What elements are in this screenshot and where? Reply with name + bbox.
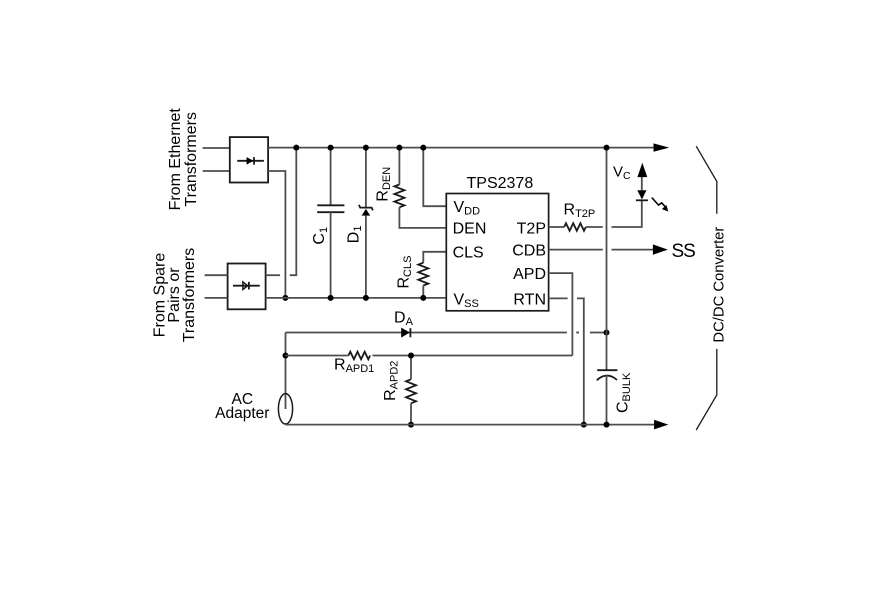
DC/DC converter bracket top — [696, 146, 717, 214]
svg-text:Transformers: Transformers — [181, 248, 198, 343]
wire bridge2 top output cont — [290, 148, 297, 276]
label From Spare Pairs or Transformers — [151, 248, 198, 343]
wire bulk rail top — [606, 148, 608, 371]
svg-text:RTN: RTN — [513, 291, 546, 308]
capacitor C1 — [317, 148, 344, 298]
wire bridge1 input bottom — [203, 170, 230, 172]
label AC Adapter — [215, 391, 269, 422]
resistor RCLS — [418, 252, 446, 298]
arrow top rail output — [654, 143, 670, 151]
junction DA to bulk rail — [604, 330, 610, 336]
svg-text:CLS: CLS — [453, 245, 484, 262]
svg-text:TPS2378: TPS2378 — [467, 175, 534, 192]
wire CDB to SS (right of rail) — [612, 249, 655, 251]
wire VDD from rail — [423, 148, 446, 207]
resistor RAPD2 — [406, 356, 416, 425]
LED light arrow — [652, 198, 669, 212]
wire bridge2 input bottom — [205, 297, 228, 299]
wire DA line left — [286, 332, 567, 334]
junction VDD rail — [420, 145, 426, 151]
DC/DC converter bracket bottom — [696, 349, 717, 430]
wire APD down-left — [549, 273, 573, 355]
label From Ethernet Transformers — [167, 108, 200, 211]
wire bridge2 top output (hops over vertical) — [266, 274, 281, 276]
bridge rectifier B1 — [230, 137, 268, 182]
wire top rail — [268, 147, 654, 149]
junction CBULK bottom — [604, 422, 610, 428]
wire adapter vertical — [285, 333, 287, 410]
junction D1 top — [363, 145, 369, 151]
svg-text:T2P: T2P — [517, 221, 546, 238]
wire RTN cont down — [577, 298, 584, 424]
diode DA — [401, 328, 410, 338]
bridge rectifier B2 — [228, 264, 266, 310]
svg-text:Transformers: Transformers — [183, 112, 200, 207]
wire bottom rail — [286, 424, 656, 426]
svg-text:DC/DC Converter: DC/DC Converter — [712, 227, 728, 343]
svg-text:Adapter: Adapter — [215, 405, 269, 422]
junction bridge1-b to VSS rail — [282, 295, 288, 301]
svg-text:DEN: DEN — [453, 221, 487, 238]
junction RTN bottom — [581, 422, 587, 428]
svg-text:SS: SS — [672, 241, 696, 262]
zener diode D1 — [359, 148, 373, 298]
svg-text:APD: APD — [513, 266, 546, 283]
wire bridge2 input top — [205, 274, 228, 276]
wire bridge1 input top — [203, 147, 230, 149]
op-amp U1 TPS2378 box — [446, 194, 548, 311]
svg-text:From Ethernet: From Ethernet — [167, 108, 184, 211]
arrow bottom rail output — [654, 420, 668, 430]
junction RCLS bottom — [420, 295, 426, 301]
wire RTN (hops APD vertical) — [549, 297, 568, 299]
svg-text:CDB: CDB — [512, 243, 546, 260]
resistor RT2P — [549, 223, 603, 231]
junction adapter-RAPD1 — [283, 353, 289, 359]
junction D1 bottom — [363, 295, 369, 301]
junction RAPD2 top — [408, 353, 414, 359]
junction C1 top — [328, 145, 334, 151]
resistor RDEN — [394, 148, 446, 228]
LED D2 — [636, 177, 648, 201]
junction RAPD2 bottom — [408, 422, 414, 428]
arrow VC up — [637, 163, 647, 177]
wire T2P to LED (after hop) — [612, 200, 642, 227]
junction bulk rail top — [604, 145, 610, 151]
arrow SS — [653, 244, 668, 254]
junction C1 bottom — [328, 295, 334, 301]
wire VSS rail — [266, 297, 447, 299]
wire DA line dash between hops — [576, 332, 579, 334]
junction RDEN top — [396, 145, 402, 151]
wire bridge1 bottom output to VSS rail — [268, 171, 285, 298]
wire DA line right — [590, 332, 607, 334]
junction bridge2 top to rail — [293, 145, 299, 151]
resistor RAPD1 — [286, 352, 573, 360]
wire CDB to SS (left of rail) — [549, 249, 603, 251]
AC adapter source — [278, 394, 292, 424]
capacitor CBULK — [597, 370, 618, 424]
